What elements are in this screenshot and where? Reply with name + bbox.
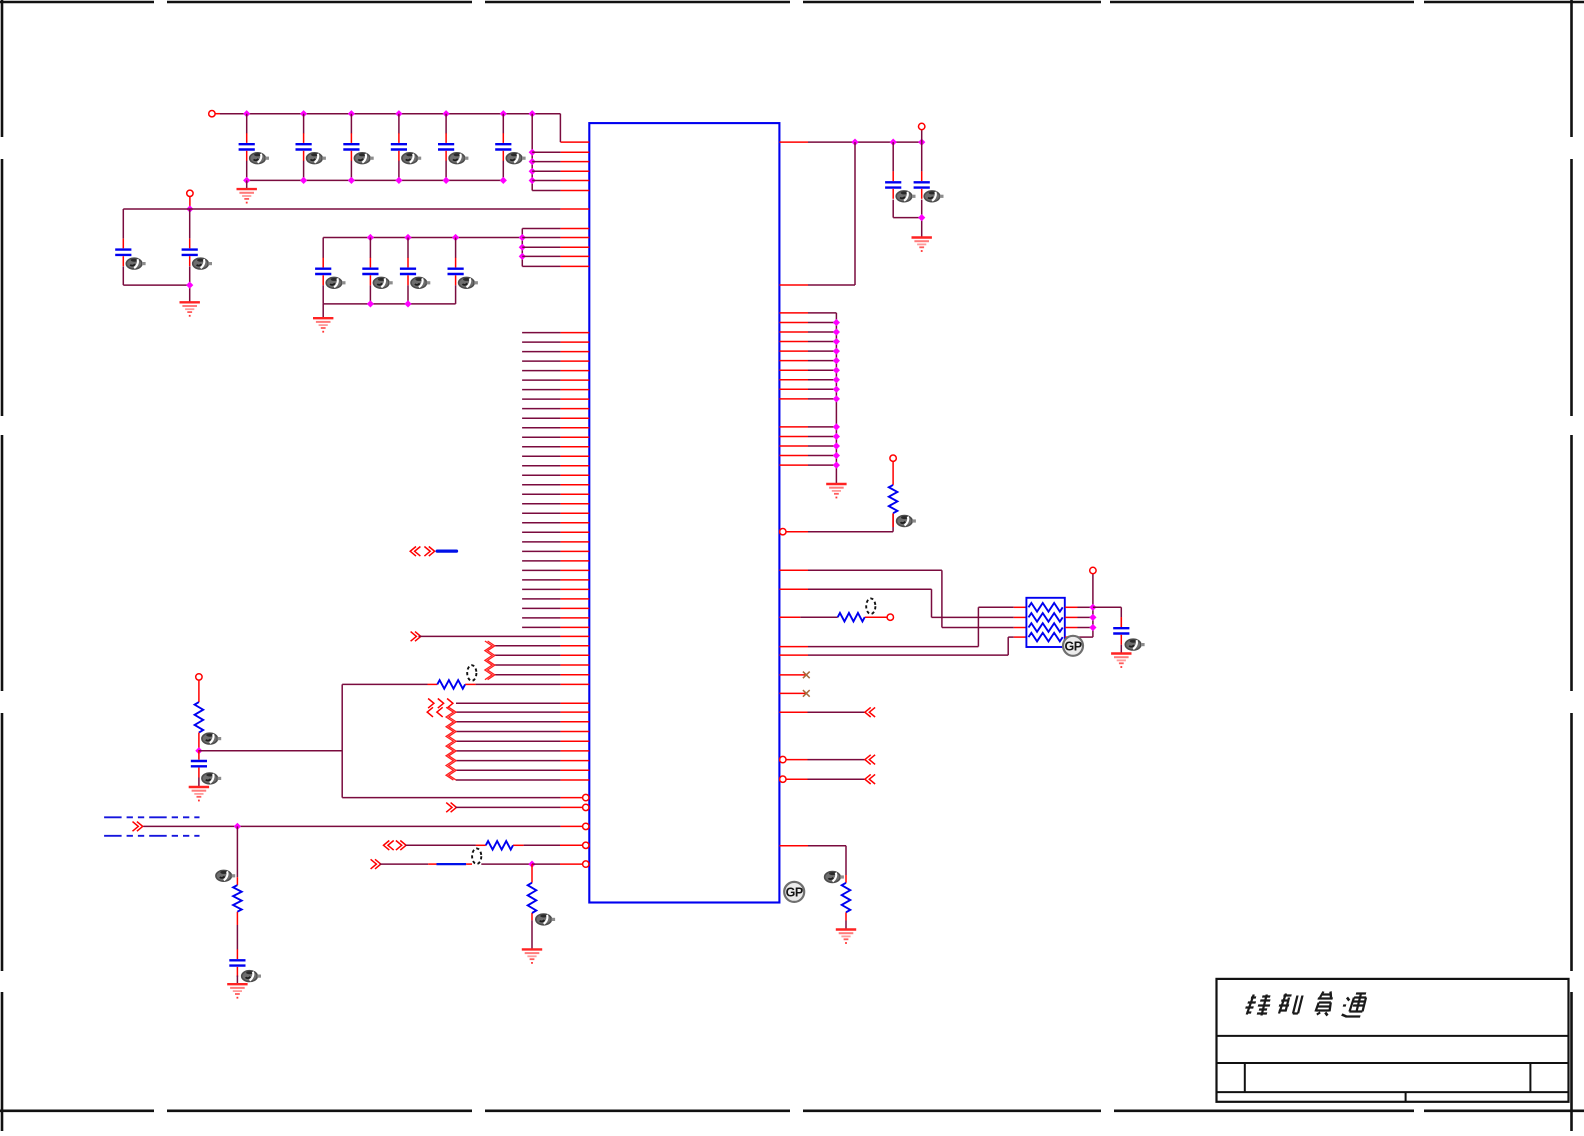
wire top-right VCC rail bbox=[779, 130, 925, 146]
wire C8 branch bbox=[186, 209, 193, 302]
page border frame top bbox=[0, 1, 1584, 4]
R6 designator bbox=[216, 870, 235, 881]
ground GND7 bbox=[836, 930, 856, 944]
C10 designator bbox=[373, 277, 392, 288]
wire net to RP1 row2 bbox=[779, 589, 1026, 617]
capacitor C9 bbox=[315, 258, 331, 286]
title block bbox=[1217, 979, 1569, 1102]
C17 designator bbox=[242, 971, 261, 982]
wire chevron net y807 bbox=[446, 803, 589, 813]
C7 designator bbox=[126, 258, 145, 269]
R2 value oval bbox=[866, 598, 875, 614]
wire cap C14 leads bbox=[918, 142, 925, 237]
wire RP1 outputs to pull rail bbox=[1065, 574, 1097, 637]
wire pin to R2 bbox=[779, 616, 887, 618]
C8 designator bbox=[193, 258, 212, 269]
C13 designator bbox=[896, 191, 915, 202]
C3 designator bbox=[354, 153, 373, 164]
U1 label GP bbox=[784, 882, 804, 902]
capacitor C11 bbox=[400, 258, 416, 286]
ground GND1 bbox=[237, 189, 257, 203]
C4 designator bbox=[402, 153, 421, 164]
wire branch to R6/C17 bbox=[236, 826, 238, 949]
resistor pack RP1 bbox=[1026, 598, 1064, 647]
capacitor C5 bbox=[438, 133, 454, 161]
C11 designator bbox=[411, 277, 430, 288]
wire RC to R5 to pin bbox=[342, 683, 589, 685]
node VCC3 terminal circle bbox=[919, 123, 925, 129]
svg-text:GP: GP bbox=[786, 885, 803, 899]
wire right-side grounded pin group bbox=[779, 313, 840, 484]
wire cap C9 leads bbox=[322, 238, 324, 304]
ground GND10 bbox=[522, 949, 542, 963]
wire squiggle group A bbox=[485, 641, 589, 680]
wire chevron net y636 bbox=[411, 632, 590, 642]
wire no-connect pin 1 bbox=[779, 672, 809, 679]
C5 designator bbox=[449, 153, 468, 164]
ground GND5 bbox=[826, 484, 846, 498]
wire cap C2 leads bbox=[303, 114, 305, 181]
wire to filter cap C15 bbox=[1093, 607, 1121, 628]
wire R4 to node bbox=[195, 733, 202, 755]
op IC U1 main body bbox=[589, 123, 779, 902]
resistor R4 bbox=[195, 702, 204, 733]
title text company name bbox=[1244, 992, 1367, 1017]
wire R8 chain to ground bbox=[531, 864, 533, 949]
wire pin fanout vertical bbox=[529, 114, 590, 191]
wire net to RP1 row1 bbox=[779, 607, 1026, 646]
R8 designator bbox=[536, 914, 555, 925]
R8 value oval bbox=[472, 848, 481, 864]
wire off-page net y864 bbox=[371, 859, 589, 869]
wire cap C1 leads bbox=[246, 114, 248, 181]
capacitor C15 bbox=[1113, 617, 1129, 645]
wire feedback vertical to pin bbox=[779, 142, 855, 285]
wire top power rail bbox=[215, 110, 589, 142]
capacitor C17 bbox=[229, 949, 245, 977]
capacitor C16 bbox=[191, 750, 207, 778]
resistor R4 pullup bbox=[198, 680, 200, 702]
wire cap C5 leads bbox=[445, 114, 447, 181]
C1 designator bbox=[250, 153, 269, 164]
node VCC1 terminal circle bbox=[209, 111, 215, 117]
C15 designator bbox=[1125, 639, 1144, 650]
resistor R6 bbox=[233, 885, 242, 912]
off-page symbol with blue tag bbox=[410, 547, 456, 557]
wire pin to R3 bbox=[779, 846, 846, 930]
ground GND4 bbox=[912, 238, 932, 252]
capacitor C7 bbox=[115, 239, 131, 267]
wire bank2 bottom rail bbox=[323, 300, 455, 318]
capacitor C8 bbox=[182, 239, 198, 267]
C16 designator bbox=[202, 773, 221, 784]
R1 designator bbox=[897, 516, 916, 527]
ground GND9 bbox=[227, 984, 247, 998]
C14 designator bbox=[924, 191, 943, 202]
wire RC to bubble pin bbox=[342, 794, 589, 800]
wire C15 to ground bbox=[1120, 645, 1122, 654]
capacitor C13 bbox=[885, 171, 901, 199]
node VCC2 terminal circle bbox=[187, 190, 193, 196]
node VCC6 terminal circle bbox=[196, 674, 202, 680]
resistor R8 bbox=[528, 883, 537, 913]
wire off-page net right y779 bbox=[780, 774, 876, 784]
ground GND3 bbox=[313, 318, 333, 332]
wire bank2 pin fanout bbox=[519, 229, 590, 267]
capacitor C12 bbox=[448, 258, 464, 286]
ground GND8 bbox=[189, 787, 209, 801]
wire bus entry net y826 bbox=[133, 822, 590, 832]
wire no-connect pin 2 bbox=[779, 690, 809, 697]
wire net to RP1 row3 bbox=[779, 570, 1026, 627]
wire off-page net y845 bbox=[384, 841, 590, 851]
C6 designator bbox=[506, 153, 525, 164]
resistor R5 bbox=[437, 680, 465, 689]
page border frame bottom bbox=[0, 1110, 1584, 1113]
node pin bubble + net to R1 bbox=[780, 462, 894, 535]
wire bottom rail of C1-C6 bbox=[243, 177, 507, 189]
capacitor C6 bbox=[495, 133, 511, 161]
R3 designator bbox=[825, 872, 844, 883]
ground GND2 bbox=[180, 302, 200, 316]
wire squiggle group B bbox=[427, 707, 589, 780]
ground GND6 bbox=[1111, 654, 1131, 668]
node VCC4 terminal circle bbox=[890, 455, 896, 461]
node VCC5 terminal circle bbox=[1090, 567, 1096, 573]
wire cap C12 leads bbox=[455, 238, 457, 304]
wire RC node routing bbox=[199, 684, 342, 797]
wire C17 to ground bbox=[236, 976, 238, 985]
wire net VCC2 horizontal to IC bbox=[123, 197, 589, 213]
wire cap C4 leads bbox=[398, 114, 400, 181]
node R2 open terminal bbox=[887, 614, 893, 620]
capacitor C10 bbox=[362, 258, 378, 286]
resistor R2 bbox=[838, 613, 865, 622]
wire chevron net y703 bbox=[428, 699, 589, 709]
wire cap C3 leads bbox=[350, 114, 352, 181]
C12 designator bbox=[459, 277, 478, 288]
capacitor C2 bbox=[296, 133, 312, 161]
wire cap C11 leads bbox=[407, 238, 409, 304]
C9 designator bbox=[326, 277, 345, 288]
RP1 label GP bbox=[1063, 636, 1083, 656]
wire net to RP1 row4 bbox=[779, 637, 1026, 655]
capacitor C14 bbox=[914, 171, 930, 199]
wire cap C13 leads bbox=[893, 142, 922, 218]
wire left address/data pin stack bbox=[522, 333, 589, 628]
wire cap C10 leads bbox=[369, 238, 371, 304]
page border frame left bbox=[1, 0, 4, 1131]
wire cap C6 leads bbox=[502, 114, 504, 181]
R4 designator bbox=[202, 733, 221, 744]
page border frame right bbox=[1570, 0, 1573, 1131]
bus dashed lines bbox=[104, 817, 199, 836]
svg-text:GP: GP bbox=[1064, 639, 1081, 653]
wire C16 to ground bbox=[198, 778, 200, 788]
resistor R3 bbox=[842, 883, 851, 913]
wire off-page net right y712 bbox=[779, 707, 875, 717]
capacitor C4 bbox=[391, 133, 407, 161]
C2 designator bbox=[307, 153, 326, 164]
wire off-page net right y759 bbox=[780, 755, 876, 765]
capacitor C3 bbox=[343, 133, 359, 161]
resistor R1 bbox=[889, 485, 898, 513]
capacitor C1 bbox=[239, 133, 255, 161]
R5 value oval bbox=[467, 665, 476, 681]
wire bank2 top rail bbox=[323, 234, 522, 241]
wire C7 branch bbox=[123, 209, 189, 285]
resistor R7 bbox=[486, 841, 513, 850]
